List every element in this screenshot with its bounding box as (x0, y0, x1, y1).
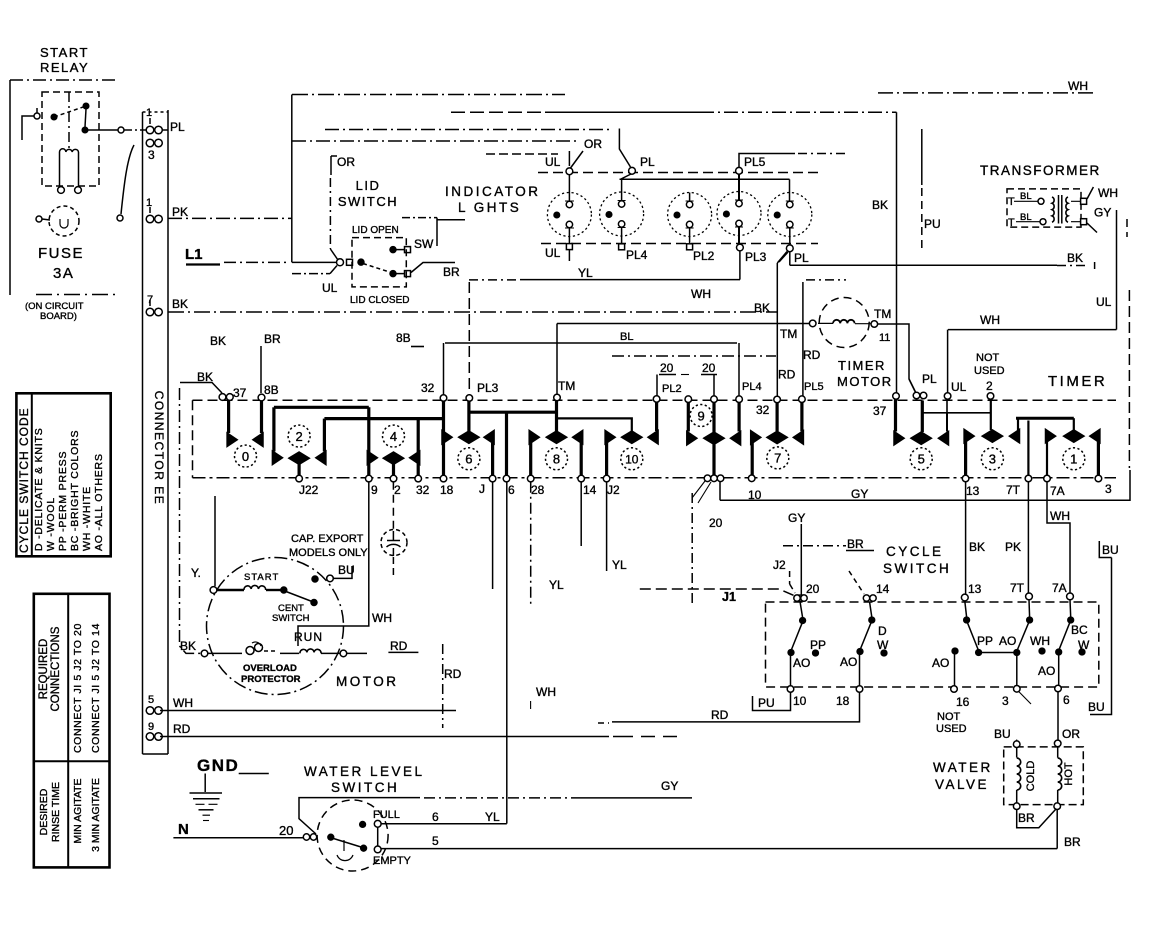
svg-text:PL3: PL3 (477, 381, 499, 395)
svg-text:8B: 8B (264, 383, 279, 397)
wire terminal 6 tap (505, 412, 508, 475)
svg-text:32: 32 (756, 403, 770, 417)
svg-text:RD: RD (778, 368, 796, 382)
wire BK dashdot down to motor (180, 388, 202, 653)
wire cluster to GY line (719, 482, 721, 501)
svg-text:J: J (479, 482, 485, 496)
timer cam switch 10 (605, 401, 658, 476)
wire TM horizontal (557, 323, 809, 325)
wire BK vertical right (896, 112, 898, 393)
motor run winding and overload (201, 642, 367, 657)
timer cam switch 8 (529, 401, 583, 476)
svg-text:8B: 8B (396, 331, 411, 345)
indicator lamp 1 UL (547, 175, 591, 261)
timer box left edge (192, 400, 194, 477)
svg-text:BK: BK (872, 198, 888, 212)
cycle terminal 7T (1026, 593, 1033, 600)
svg-text:32: 32 (421, 381, 435, 395)
svg-text:BK: BK (172, 297, 188, 311)
motor centrifugal switch (286, 592, 317, 606)
svg-text:WATER: WATER (933, 760, 993, 775)
svg-text:J2: J2 (607, 483, 620, 497)
svg-text:OR: OR (584, 137, 602, 151)
svg-text:GY: GY (788, 511, 805, 525)
wire RD to cycle 18 (598, 692, 860, 723)
wire timer bus 6-8 (470, 411, 557, 414)
svg-text:9: 9 (697, 408, 704, 423)
wire timer bus 8-10 (557, 418, 632, 431)
lid switch lower contact BR (390, 263, 455, 277)
svg-text:TM: TM (780, 327, 797, 341)
svg-text:1: 1 (146, 197, 152, 209)
svg-text:BC: BC (1071, 623, 1088, 637)
wire 32 riser (443, 343, 445, 397)
svg-text:DESIRED: DESIRED (38, 788, 50, 835)
wire cluster pointers (692, 481, 711, 503)
required connections table (34, 594, 110, 868)
svg-text:TIMER: TIMER (1048, 373, 1107, 390)
svg-text:INDICATOR: INDICATOR (445, 184, 541, 199)
wire bus A (292, 94, 565, 96)
svg-text:PK: PK (172, 205, 188, 219)
wire stub above lamp box (486, 153, 558, 155)
svg-text:3 MIN AGITATE: 3 MIN AGITATE (90, 778, 102, 852)
wire riser left bus (291, 95, 293, 263)
svg-text:AO: AO (1038, 664, 1055, 678)
svg-text:UL: UL (545, 155, 561, 169)
svg-text:RD: RD (711, 708, 729, 722)
svg-text:UL: UL (545, 246, 561, 260)
svg-text:MOTOR: MOTOR (837, 374, 893, 389)
wire BR to 8B (260, 346, 262, 393)
svg-text:LID: LID (356, 178, 381, 193)
svg-text:VALVE: VALVE (935, 777, 989, 792)
timer top terminals row (440, 392, 994, 403)
timer terminal 8B (258, 394, 265, 401)
svg-text:6: 6 (432, 810, 439, 824)
svg-text:20: 20 (709, 516, 723, 530)
svg-text:4: 4 (390, 429, 397, 444)
svg-text:COLD: COLD (1025, 761, 1037, 792)
connector EE pin 7 BK (146, 300, 162, 316)
timer cam switch 6 (442, 401, 494, 476)
wire WH top right (878, 92, 1095, 94)
wire UL from lid switch (292, 266, 337, 274)
wire 9 to motor (298, 482, 369, 646)
cycle arm 20-AO (788, 602, 818, 686)
wire BU bracket top (1090, 541, 1112, 715)
wire PK from connector (168, 217, 292, 219)
svg-text:PL: PL (640, 155, 655, 169)
svg-text:5: 5 (918, 452, 925, 467)
timer cam switch 9 (687, 401, 741, 477)
svg-text:3: 3 (989, 452, 996, 467)
wire WH from connector (160, 710, 456, 712)
wire BK from lamp PL down to timer (777, 252, 787, 397)
lid switch upper contact SW (390, 247, 411, 253)
svg-text:37: 37 (873, 404, 887, 418)
start relay label (40, 45, 89, 75)
terminal PL5 top (736, 167, 743, 174)
svg-text:16: 16 (956, 695, 970, 709)
svg-text:7: 7 (774, 451, 781, 466)
indicator box bottom edge (541, 243, 818, 245)
svg-text:2: 2 (986, 379, 993, 393)
svg-text:RD: RD (390, 639, 408, 653)
labels above timer terminals (421, 352, 1005, 418)
svg-text:L GHTS: L GHTS (458, 200, 521, 215)
svg-text:18: 18 (440, 483, 454, 497)
svg-text:SWITCH: SWITCH (883, 561, 951, 576)
indicator lamp 4 PL3 (717, 174, 761, 251)
wire timer bus 3-1 (1016, 417, 1074, 420)
wire WH pointer from transformer (1087, 187, 1093, 199)
water valve HOT solenoid (1054, 740, 1062, 809)
svg-text:1: 1 (1070, 452, 1077, 467)
motor start winding (210, 585, 287, 593)
timer cam switch 1 (1046, 418, 1100, 475)
wire J1 riser (691, 493, 693, 603)
svg-text:BU: BU (1102, 543, 1119, 557)
wire N line (173, 837, 303, 839)
svg-text:BU: BU (994, 727, 1011, 741)
svg-text:8: 8 (553, 452, 560, 467)
wire timer motor to PL pair (878, 324, 916, 392)
svg-text:Y.: Y. (191, 566, 201, 580)
svg-text:BK: BK (754, 301, 770, 315)
svg-text:GND: GND (197, 756, 239, 775)
svg-text:20: 20 (806, 582, 820, 596)
cycle arm 13-PP-AO (964, 601, 1017, 655)
fuse F1 3A (36, 145, 134, 236)
svg-text:EMPTY: EMPTY (373, 855, 412, 867)
wire PU vertical (921, 129, 923, 253)
wire BR jumper (1017, 810, 1056, 828)
cycle switch label (883, 544, 951, 576)
timer box right edge (1127, 219, 1129, 468)
svg-text:BL: BL (620, 331, 633, 343)
wire 32top to 18 line (442, 401, 445, 476)
capacitor C1 export (381, 482, 407, 577)
wire PL4 riser (738, 343, 740, 397)
svg-text:AO -ALL OTHERS: AO -ALL OTHERS (93, 453, 105, 551)
svg-text:UL: UL (951, 380, 967, 394)
svg-text:TM: TM (874, 307, 891, 321)
indicator lamp 5 PL (768, 179, 812, 262)
svg-text:RINSE TIME: RINSE TIME (50, 782, 62, 842)
svg-text:PL5: PL5 (744, 155, 766, 169)
svg-text:20: 20 (660, 361, 674, 375)
cycle bottom terminals (787, 685, 1061, 692)
wire bus D OR to UL lamp (292, 141, 583, 168)
cycle contact 16 (952, 648, 958, 685)
svg-text:WH: WH (173, 696, 193, 710)
svg-text:5: 5 (432, 834, 439, 848)
wire 8B horizontal (445, 342, 737, 344)
timer cam switch 7 (751, 401, 804, 476)
svg-text:FUSE: FUSE (38, 245, 84, 262)
wire timer bus upper (274, 406, 369, 409)
svg-text:14: 14 (876, 582, 890, 596)
svg-text:0: 0 (242, 449, 249, 464)
svg-text:WH -WHITE: WH -WHITE (81, 486, 93, 551)
svg-text:PU: PU (758, 696, 775, 710)
svg-text:START: START (244, 572, 279, 583)
svg-text:RD: RD (803, 348, 821, 362)
wire RD labels near PL5 (778, 348, 821, 382)
svg-text:3: 3 (148, 148, 155, 162)
node L1 (185, 246, 203, 263)
timer bottom terminals row (296, 475, 1102, 482)
wire timer bus lower (324, 417, 443, 420)
cycle arm 7T (1014, 600, 1045, 686)
connector EE pin 1 PK (146, 207, 162, 223)
wire WH to timer UL (948, 330, 1117, 396)
svg-text:6: 6 (1063, 693, 1070, 707)
svg-text:WH: WH (1098, 186, 1118, 200)
svg-text:CONNECT JI 5 J2 TO 14: CONNECT JI 5 J2 TO 14 (90, 623, 102, 753)
water level switch label (304, 764, 425, 795)
svg-text:10: 10 (625, 453, 639, 467)
svg-text:7: 7 (147, 294, 153, 306)
svg-text:GY: GY (661, 779, 678, 793)
svg-text:9: 9 (148, 721, 154, 733)
svg-text:OVERLOAD: OVERLOAD (243, 663, 297, 674)
svg-text:PK: PK (1005, 540, 1021, 554)
svg-text:PL3: PL3 (745, 250, 767, 264)
wire J2 pointer (790, 571, 795, 593)
svg-text:WH: WH (691, 287, 711, 301)
svg-text:L1: L1 (185, 246, 203, 263)
indicator lamp 3 PL2 (668, 193, 712, 250)
svg-text:11: 11 (879, 332, 890, 344)
wire 6 YL to water level (506, 482, 508, 824)
svg-text:HOT: HOT (1063, 762, 1075, 786)
svg-text:PL: PL (794, 251, 809, 265)
svg-text:SWITCH: SWITCH (331, 780, 399, 795)
lid switch common contact (337, 259, 392, 273)
relay coil (58, 149, 82, 194)
svg-text:7T: 7T (1010, 581, 1025, 595)
wire YL J2 stub (606, 482, 608, 571)
svg-text:T: T (1008, 196, 1015, 208)
svg-text:AO: AO (999, 634, 1016, 648)
wire 13 to cycle (965, 482, 967, 594)
svg-text:TRANSFORMER: TRANSFORMER (980, 163, 1101, 178)
water valve COLD solenoid (1013, 740, 1020, 810)
wire 7T to cycle (1027, 482, 1029, 594)
svg-text:BU: BU (338, 563, 355, 577)
svg-text:SWITCH: SWITCH (272, 613, 310, 624)
cycle terminal 14 (863, 595, 876, 601)
svg-text:BR: BR (1064, 835, 1081, 849)
svg-text:PL2: PL2 (662, 383, 682, 395)
svg-text:AO: AO (932, 656, 949, 670)
wire TM riser (556, 324, 558, 397)
svg-text:BK: BK (1067, 251, 1083, 265)
timer terminal 37 (219, 394, 233, 401)
wire YL to PL3 terminal of timer (469, 279, 740, 281)
SW bracket (402, 218, 465, 246)
wire dash mid (612, 355, 776, 357)
terminal UL top (566, 168, 573, 175)
svg-text:RUN: RUN (294, 630, 323, 644)
svg-text:J2: J2 (773, 558, 786, 572)
svg-text:SWITCH: SWITCH (338, 194, 398, 209)
wire J1 to cycle 20 (640, 589, 794, 596)
svg-text:BOARD): BOARD) (40, 311, 77, 322)
svg-text:CAP. EXPORT: CAP. EXPORT (291, 533, 364, 545)
svg-text:BK: BK (969, 540, 985, 554)
svg-text:3: 3 (1002, 694, 1009, 708)
wire PL stub to BK line right (790, 252, 1095, 269)
wire L1 feed (186, 262, 336, 264)
cycle terminal 13 (961, 594, 968, 601)
wire FULL YL (381, 823, 507, 825)
wire 7T line (1027, 421, 1029, 476)
water valve box (1004, 747, 1084, 805)
cycle arm 7A (1056, 600, 1085, 685)
wire terminal 9 line (367, 407, 370, 475)
svg-text:REQUIRED: REQUIRED (38, 639, 50, 700)
svg-text:TM: TM (558, 379, 575, 393)
svg-text:MODELS ONLY: MODELS ONLY (289, 547, 368, 559)
svg-text:BR: BR (443, 265, 460, 279)
svg-text:YL: YL (612, 558, 627, 572)
svg-text:AO: AO (840, 655, 857, 669)
svg-text:20: 20 (702, 361, 716, 375)
timer cam switch 3 (964, 401, 1019, 476)
wire 20 hooks (657, 375, 717, 397)
svg-text:NOT: NOT (937, 711, 961, 723)
node N (178, 821, 189, 838)
svg-text:USED: USED (974, 365, 1005, 377)
svg-text:WH: WH (1068, 79, 1088, 93)
indicator lamp 2 PL4 (600, 179, 644, 250)
svg-text:13: 13 (966, 484, 980, 498)
wire PL3 vertical to timer (468, 282, 470, 397)
timer cam switch 0 (227, 401, 263, 468)
svg-text:BR: BR (1018, 811, 1035, 825)
lid switch OR bracket (330, 156, 338, 260)
wire BK bus from connector (168, 311, 777, 313)
svg-text:7A: 7A (1052, 581, 1067, 595)
svg-text:PL4: PL4 (626, 248, 648, 262)
wire GY long line (720, 470, 1130, 500)
svg-text:USED: USED (936, 723, 967, 735)
svg-text:NOT: NOT (976, 352, 1000, 364)
svg-text:GY: GY (1094, 206, 1111, 220)
wire RD from motor (388, 644, 442, 728)
water valve label (933, 760, 993, 792)
start relay K1 (22, 92, 99, 186)
svg-text:MOTOR: MOTOR (336, 674, 399, 689)
wire J stub (492, 482, 494, 589)
svg-text:PL: PL (922, 372, 937, 386)
wire PL diagonal join (909, 379, 916, 392)
svg-text:W: W (1078, 638, 1090, 652)
transformer T1 (980, 163, 1101, 178)
svg-text:PL4: PL4 (742, 381, 762, 393)
svg-text:1: 1 (146, 107, 152, 119)
svg-text:2: 2 (295, 429, 302, 444)
wire RD from connector (160, 736, 677, 738)
svg-text:PL2: PL2 (693, 249, 715, 263)
svg-text:BC -BRIGHT COLORS: BC -BRIGHT COLORS (69, 430, 81, 551)
connector EE pin 3 (146, 139, 162, 147)
svg-text:CONNECT JI 5 J2 TO 20: CONNECT JI 5 J2 TO 20 (72, 623, 84, 753)
wire Y to motor start (214, 496, 216, 586)
motor BU terminal (312, 566, 352, 582)
timer motor (809, 298, 877, 348)
motor (207, 558, 344, 695)
wire GY from transformer down (1087, 210, 1117, 330)
svg-text:START: START (40, 45, 89, 60)
timer cam switch 5 (894, 399, 949, 470)
svg-text:WH: WH (1050, 509, 1070, 523)
wire relay to connector PL (88, 127, 146, 133)
svg-text:20: 20 (279, 823, 293, 838)
svg-text:CONNECTOR EE: CONNECTOR EE (152, 391, 166, 505)
svg-text:2: 2 (394, 483, 401, 497)
cycle switch box (766, 602, 1099, 687)
svg-text:32: 32 (416, 483, 430, 497)
timer cam switch 4 (367, 425, 419, 475)
cycle arm 14-AO (857, 602, 887, 686)
wire PL3 down to YL (739, 251, 741, 280)
wire 7A jog to cycle (1047, 482, 1070, 594)
connector EE pin 5 WH (146, 707, 162, 715)
svg-text:J22: J22 (299, 483, 319, 497)
svg-text:CYCLE: CYCLE (886, 544, 944, 559)
cycle terminal 20 (794, 595, 807, 601)
svg-text:BR: BR (264, 332, 281, 346)
indicator lights label (445, 184, 541, 215)
connector EE pin 1 PL (146, 118, 168, 134)
svg-text:10: 10 (793, 694, 807, 708)
cycle switch code table (16, 393, 110, 556)
wire 14 stub (580, 482, 582, 546)
svg-text:D: D (878, 624, 887, 638)
svg-text:BU: BU (1088, 700, 1105, 714)
svg-text:D -DELICATE & KNITS: D -DELICATE & KNITS (33, 427, 45, 551)
svg-text:5: 5 (148, 694, 154, 706)
svg-text:BL: BL (1020, 212, 1032, 223)
svg-text:6: 6 (465, 452, 472, 467)
cycle terminal 7A (1067, 593, 1074, 600)
svg-text:RD: RD (444, 667, 462, 681)
labels above timer left (197, 332, 281, 400)
wire lamp top bus (620, 178, 790, 180)
wire 6 to valve OR (1057, 692, 1059, 740)
connector EE strip (143, 110, 169, 754)
svg-text:OR: OR (337, 155, 355, 169)
svg-text:PROTECTOR: PROTECTOR (241, 674, 301, 685)
wire 28 stub (530, 482, 532, 606)
timer label (1048, 373, 1107, 390)
svg-text:LID OPEN: LID OPEN (352, 225, 399, 236)
wire PU hook (753, 692, 791, 710)
svg-text:YL: YL (549, 578, 564, 592)
svg-text:FULL: FULL (373, 809, 400, 821)
connector EE pin 9 RD (146, 733, 162, 741)
wire PL5 vertical to timer (803, 280, 846, 397)
wire timer bus 5-3 (922, 401, 990, 413)
wire BK pointer to 37 (180, 383, 222, 394)
svg-text:WH: WH (980, 313, 1000, 327)
svg-text:LID CLOSED: LID CLOSED (350, 295, 409, 306)
svg-text:13: 13 (968, 582, 982, 596)
